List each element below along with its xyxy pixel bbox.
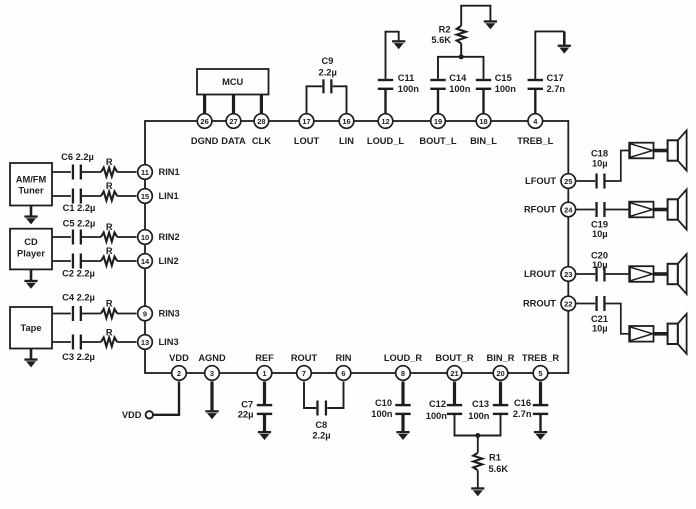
svg-text:C12: C12 xyxy=(429,399,446,409)
speaker (row C18) xyxy=(668,131,687,171)
svg-text:6: 6 xyxy=(341,369,345,378)
svg-text:R1: R1 xyxy=(489,452,501,462)
pin 16 LIN xyxy=(339,114,354,146)
resistor R1 5.6K xyxy=(473,452,508,474)
svg-text:13: 13 xyxy=(141,338,149,347)
svg-text:C3 2.2µ: C3 2.2µ xyxy=(62,352,95,362)
pin 8 LOUD_R xyxy=(384,353,423,381)
capacitor C19 10u xyxy=(591,202,608,239)
svg-text:R: R xyxy=(106,157,113,167)
svg-text:2.7n: 2.7n xyxy=(513,409,532,419)
pin 17 LOUT xyxy=(294,114,320,146)
svg-text:11: 11 xyxy=(141,168,149,177)
wire resistor to pin xyxy=(117,260,136,262)
wire C10 to ground xyxy=(401,415,404,431)
wire resistor to pin xyxy=(117,195,136,197)
svg-text:C14: C14 xyxy=(449,73,467,83)
svg-text:100n: 100n xyxy=(495,84,517,94)
svg-text:100n: 100n xyxy=(449,84,471,94)
pin 2 VDD xyxy=(169,353,189,381)
junction node below R2 xyxy=(459,54,464,59)
capacitor C17 2.7n xyxy=(528,73,566,94)
pin 28 CLK xyxy=(252,114,271,146)
svg-text:Tuner: Tuner xyxy=(18,186,44,196)
Tape box xyxy=(10,307,52,349)
svg-text:C8: C8 xyxy=(315,420,327,430)
wire C21 to amplifier xyxy=(605,304,630,334)
wire amplifier to speaker xyxy=(654,208,668,212)
svg-text:19: 19 xyxy=(434,117,442,126)
wire source box to C4 xyxy=(52,313,71,315)
pin 24 RFOUT xyxy=(524,202,576,217)
svg-text:LIN2: LIN2 xyxy=(159,256,179,266)
svg-text:R: R xyxy=(106,299,113,309)
svg-text:C1 2.2µ: C1 2.2µ xyxy=(63,203,96,213)
ground above C17 xyxy=(558,45,571,54)
wire source box to C1 xyxy=(52,195,71,197)
speaker (row C21) xyxy=(668,314,687,354)
ground below C10 xyxy=(396,431,409,440)
svg-text:17: 17 xyxy=(302,117,310,126)
svg-text:5.6K: 5.6K xyxy=(489,464,509,474)
svg-text:C7: C7 xyxy=(241,399,253,409)
capacitor C5 2.2u xyxy=(63,219,96,245)
capacitor C7 22u xyxy=(238,399,272,419)
svg-text:LIN: LIN xyxy=(339,136,354,146)
wire amplifier to speaker xyxy=(654,272,668,276)
svg-text:C5 2.2µ: C5 2.2µ xyxy=(63,219,96,229)
wire C19 to amplifier xyxy=(605,209,630,211)
wire junction to R2 xyxy=(460,43,462,56)
svg-text:C10: C10 xyxy=(375,398,392,408)
pin 25 LFOUT xyxy=(525,174,576,189)
svg-text:LIN1: LIN1 xyxy=(159,191,179,201)
pin 19 BOUT_L xyxy=(419,114,457,146)
svg-text:AGND: AGND xyxy=(198,353,226,363)
wire pin 8 down to C10 xyxy=(401,382,404,405)
svg-text:21: 21 xyxy=(450,369,458,378)
capacitor C3 2.2u xyxy=(62,335,95,362)
pin 15 LIN1 xyxy=(138,189,179,204)
svg-text:BIN_L: BIN_L xyxy=(470,136,497,146)
resistor R (row C3) xyxy=(101,328,117,347)
svg-text:REF: REF xyxy=(255,353,274,363)
svg-text:22µ: 22µ xyxy=(238,410,254,420)
svg-text:22: 22 xyxy=(564,299,572,308)
ground above C11 xyxy=(392,40,405,49)
IC body U1 (28-pin audio processor) xyxy=(145,121,568,373)
pin 21 BOUT_R xyxy=(435,353,474,381)
wire pin 2 to VDD terminal xyxy=(153,382,179,415)
pin 14 LIN2 xyxy=(138,254,179,269)
wire pin 20 down to C13 xyxy=(499,382,502,405)
wire C12/C13 bottoms to R1 junction xyxy=(455,415,501,436)
ground AGND xyxy=(205,410,218,419)
wire pin 18 up to C15 xyxy=(482,90,484,114)
svg-text:C9: C9 xyxy=(322,56,334,66)
svg-text:20: 20 xyxy=(496,369,504,378)
svg-text:10: 10 xyxy=(141,233,149,242)
wire pin to C18 xyxy=(577,180,596,182)
wire resistor to pin xyxy=(117,341,136,343)
svg-text:C21: C21 xyxy=(591,314,608,324)
capacitor C13 100n xyxy=(468,399,508,421)
resistor R (row C5) xyxy=(101,222,117,242)
capacitor C6 2.2u xyxy=(61,152,94,180)
pin 5 TREB_R xyxy=(522,353,559,381)
svg-text:7: 7 xyxy=(302,369,306,378)
amplifier (row C18) xyxy=(629,143,653,159)
svg-text:C2 2.2µ: C2 2.2µ xyxy=(62,269,95,279)
svg-text:RFOUT: RFOUT xyxy=(524,205,556,215)
speaker (row C19) xyxy=(668,190,687,230)
capacitor C14 100n xyxy=(430,73,470,94)
svg-text:2.2µ: 2.2µ xyxy=(319,67,337,77)
wire C17 to ground xyxy=(535,31,564,79)
capacitor C10 100n xyxy=(371,398,410,419)
svg-text:15: 15 xyxy=(141,192,149,201)
svg-text:LFOUT: LFOUT xyxy=(525,176,556,186)
wire pin 12 up to C11 xyxy=(384,90,386,114)
svg-text:1: 1 xyxy=(262,369,266,378)
svg-text:C13: C13 xyxy=(472,399,489,409)
wire MCU to pin 27 xyxy=(232,95,235,114)
svg-text:RIN1: RIN1 xyxy=(159,167,180,177)
wire MCU to pin 28 xyxy=(260,95,263,114)
svg-text:3: 3 xyxy=(210,369,214,378)
svg-text:RIN3: RIN3 xyxy=(159,309,180,319)
svg-text:8: 8 xyxy=(401,369,405,378)
pin 13 LIN3 xyxy=(138,335,179,350)
svg-text:C4 2.2µ: C4 2.2µ xyxy=(62,293,95,303)
svg-text:CLK: CLK xyxy=(252,136,271,146)
resistor R (row C4) xyxy=(101,299,117,319)
wire C14 top to C15 top (junction link) xyxy=(438,57,484,79)
capacitor C12 100n xyxy=(426,399,462,421)
svg-text:DGND: DGND xyxy=(191,136,219,146)
svg-text:RIN2: RIN2 xyxy=(159,232,180,242)
wire source box to C3 xyxy=(52,341,71,343)
svg-text:LROUT: LROUT xyxy=(524,269,556,279)
wire pin 3 to ground (AGND) xyxy=(210,382,213,411)
svg-text:C15: C15 xyxy=(495,73,512,83)
ground below C16 xyxy=(534,431,547,440)
svg-text:2: 2 xyxy=(177,369,181,378)
svg-text:C19: C19 xyxy=(591,220,608,230)
capacitor C4 2.2u xyxy=(62,293,95,321)
wire pin to C20 xyxy=(577,273,596,275)
svg-text:RIN: RIN xyxy=(335,353,351,363)
svg-text:VDD: VDD xyxy=(122,410,142,420)
svg-text:5.6K: 5.6K xyxy=(431,35,451,45)
svg-text:BOUT_L: BOUT_L xyxy=(419,136,457,146)
capacitor C21 10u xyxy=(591,296,608,333)
wire C9 to pin 16 xyxy=(333,86,347,113)
wire MCU to pin 26 xyxy=(203,95,206,114)
svg-text:CD: CD xyxy=(24,237,38,247)
wire C8 to pin 6 xyxy=(327,382,343,409)
wire pin to C21 xyxy=(577,303,596,305)
VDD terminal xyxy=(122,410,153,420)
svg-text:C20: C20 xyxy=(591,251,608,261)
svg-text:2.7n: 2.7n xyxy=(547,84,566,94)
svg-text:LIN3: LIN3 xyxy=(159,337,179,347)
MCU box xyxy=(197,69,269,95)
svg-text:10µ: 10µ xyxy=(592,229,608,239)
svg-text:C6 2.2µ: C6 2.2µ xyxy=(61,152,94,162)
wire source box to C5 xyxy=(52,236,71,238)
svg-text:27: 27 xyxy=(229,117,237,126)
wire C3 to resistor xyxy=(81,341,101,343)
svg-text:R: R xyxy=(106,222,113,232)
svg-text:Tape: Tape xyxy=(20,323,41,333)
svg-text:C16: C16 xyxy=(514,398,531,408)
resistor R2 5.6K xyxy=(431,25,465,45)
svg-text:10µ: 10µ xyxy=(592,158,608,168)
wire pin 1 down to C7 xyxy=(263,382,266,405)
svg-text:10µ: 10µ xyxy=(592,260,608,270)
svg-text:AM/FM: AM/FM xyxy=(16,174,47,184)
wire pin 17 up to C9 xyxy=(307,86,323,113)
wire C5 to resistor xyxy=(81,236,101,238)
wire C20 to amplifier xyxy=(605,273,630,275)
wire R1 to ground xyxy=(477,470,479,487)
svg-text:26: 26 xyxy=(200,117,208,126)
svg-text:9: 9 xyxy=(143,309,147,318)
speaker (row C20) xyxy=(668,254,687,294)
svg-text:R: R xyxy=(106,181,113,191)
pin 20 BIN_R xyxy=(487,353,515,381)
svg-text:R2: R2 xyxy=(439,25,451,35)
wire C4 to resistor xyxy=(81,313,101,315)
wire C6 to resistor xyxy=(81,171,101,173)
svg-text:12: 12 xyxy=(381,117,389,126)
wire source box to C2 xyxy=(52,260,71,262)
svg-text:R: R xyxy=(106,246,113,256)
pin 6 RIN xyxy=(335,353,351,381)
capacitor C1 2.2u xyxy=(63,189,96,214)
wire pin to C19 xyxy=(577,209,596,211)
capacitor C15 100n xyxy=(476,73,516,94)
svg-text:MCU: MCU xyxy=(222,77,243,87)
wire C1 to resistor xyxy=(81,195,101,197)
ground below AM/FM Tuner xyxy=(24,206,37,225)
pin 23 LROUT xyxy=(524,267,576,282)
resistor R (row C2) xyxy=(101,246,117,266)
svg-text:C17: C17 xyxy=(547,73,564,83)
svg-text:16: 16 xyxy=(342,117,350,126)
wire resistor to pin xyxy=(117,236,136,238)
amplifier (row C19) xyxy=(629,202,653,218)
svg-text:BIN_R: BIN_R xyxy=(487,353,515,363)
capacitor C16 2.7n xyxy=(513,398,548,419)
pin 10 RIN2 xyxy=(138,230,180,245)
wire amplifier to speaker xyxy=(654,149,668,153)
wire resistor to pin xyxy=(117,313,136,315)
wire pin 4 up to C17 xyxy=(534,90,536,114)
svg-text:5: 5 xyxy=(538,369,542,378)
svg-text:14: 14 xyxy=(141,257,150,266)
svg-text:100n: 100n xyxy=(468,411,490,421)
capacitor C18 10u xyxy=(591,149,608,189)
ground below Tape xyxy=(24,349,37,368)
wire pin 21 down to C12 xyxy=(453,382,456,405)
amplifier (row C20) xyxy=(629,266,653,282)
wire pin 7 down to C8 xyxy=(304,382,316,409)
svg-text:100n: 100n xyxy=(398,84,420,94)
junction node above R1 xyxy=(475,433,480,438)
svg-text:18: 18 xyxy=(479,117,487,126)
svg-text:BOUT_R: BOUT_R xyxy=(435,353,474,363)
wire C18 to amplifier xyxy=(605,151,630,182)
svg-text:100n: 100n xyxy=(426,411,448,421)
capacitor C9 2.2u xyxy=(319,56,337,94)
svg-text:ROUT: ROUT xyxy=(291,353,318,363)
wire source box to C6 xyxy=(52,171,71,173)
ground below CD Player xyxy=(24,269,37,288)
svg-text:R: R xyxy=(106,328,113,338)
svg-text:DATA: DATA xyxy=(221,136,246,146)
capacitor C20 10u xyxy=(591,251,608,282)
ground below C7 xyxy=(258,431,271,440)
svg-text:25: 25 xyxy=(564,177,572,186)
svg-text:LOUD_L: LOUD_L xyxy=(367,136,405,146)
pin 4 TREB_L xyxy=(517,114,553,146)
CD Player box xyxy=(10,229,52,270)
svg-text:LOUT: LOUT xyxy=(294,136,320,146)
svg-text:24: 24 xyxy=(564,205,573,214)
pin 18 BIN_L xyxy=(470,114,497,146)
svg-text:23: 23 xyxy=(564,270,572,279)
svg-text:VDD: VDD xyxy=(169,353,189,363)
wire pin 5 down to C16 xyxy=(539,382,542,405)
wire C2 to resistor xyxy=(81,260,101,262)
svg-text:2.2µ: 2.2µ xyxy=(312,430,330,440)
wire C16 to ground xyxy=(539,415,541,431)
wire junction to R1 xyxy=(477,436,479,453)
pin 12 LOUD_L xyxy=(367,114,405,146)
svg-text:10µ: 10µ xyxy=(592,323,608,333)
wire amplifier to speaker xyxy=(654,332,668,336)
pin 7 ROUT xyxy=(291,353,318,381)
pin 22 RROUT xyxy=(523,296,576,311)
wire C7 to ground xyxy=(263,415,266,431)
wire resistor to pin xyxy=(117,171,136,173)
svg-text:TREB_L: TREB_L xyxy=(517,136,553,146)
amplifier (row C21) xyxy=(629,326,653,342)
wire C11 to ground xyxy=(386,32,399,79)
wire pin 19 up to C14 xyxy=(437,90,439,114)
wire R2 to ground xyxy=(461,6,490,26)
pin 1 REF xyxy=(255,353,274,381)
svg-text:28: 28 xyxy=(257,117,265,126)
svg-text:C11: C11 xyxy=(398,73,415,83)
svg-text:TREB_R: TREB_R xyxy=(522,353,559,363)
svg-text:RROUT: RROUT xyxy=(523,299,556,309)
pin 9 RIN3 xyxy=(138,306,180,321)
capacitor C8 2.2u xyxy=(312,401,330,441)
ground below R1 xyxy=(471,487,484,496)
AM/FM Tuner box xyxy=(10,163,52,206)
pin 27 DATA xyxy=(221,114,246,146)
ground above R2 xyxy=(484,20,497,29)
capacitor C2 2.2u xyxy=(62,254,95,279)
pin 26 DGND xyxy=(191,114,219,146)
svg-text:100n: 100n xyxy=(371,409,393,419)
resistor R (row C1) xyxy=(101,181,117,201)
pin 11 RIN1 xyxy=(138,165,180,180)
resistor R (row C6) xyxy=(101,157,117,177)
svg-text:Player: Player xyxy=(17,249,45,259)
svg-text:LOUD_R: LOUD_R xyxy=(384,353,423,363)
capacitor C11 100n xyxy=(378,73,420,94)
pin 3 AGND xyxy=(198,353,226,381)
svg-text:C18: C18 xyxy=(591,149,608,159)
